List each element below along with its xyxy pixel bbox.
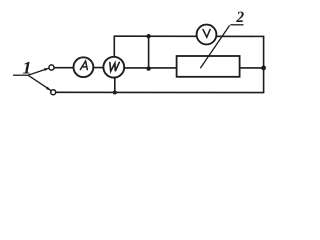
wire: top wire through voltmeter to right bus [114,36,263,92]
wattmeter W [103,57,124,78]
label 1 leader line to lower terminal [28,75,51,90]
label 1 [23,62,30,74]
wire: load rectangle right side to right bus [240,67,264,69]
label 2 underline [230,24,243,26]
wire: ammeter to wattmeter [93,67,103,69]
load resistor 2 (rectangle) [177,56,240,77]
wire: bottom return wire [56,91,264,93]
label 2 [236,12,244,22]
wire: wattmeter to load rectangle [124,67,176,69]
wire: upper terminal to ammeter [54,67,74,69]
voltmeter V [197,25,217,45]
label 1 leader line to upper terminal [28,68,48,75]
node: junction dot on right bus [261,66,266,71]
ammeter A [74,57,94,77]
node: junction dot on top wire [146,34,150,38]
wire: riser from top wire down to main wire [148,36,150,68]
node: junction dot on main wire [146,66,150,70]
terminal: upper input terminal [49,65,54,70]
wire: wattmeter bottom riser to bottom wire [114,78,116,93]
node: junction dot on bottom wire [113,91,117,95]
terminal: lower input terminal [51,90,56,95]
arrowhead of leader to upper terminal [44,68,49,71]
label 1 leader dash [13,74,28,76]
arrowhead of leader to lower terminal [46,87,51,91]
wire: wattmeter voltage-coil riser to top wire [113,36,115,57]
label 2 leader line [200,25,229,68]
